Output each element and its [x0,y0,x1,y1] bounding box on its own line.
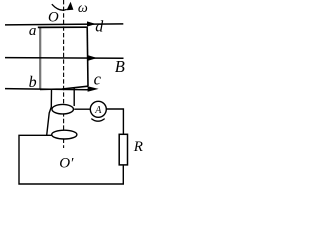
svg-text:ω: ω [78,1,88,16]
coil right edge dc [86,27,89,86]
field line 1 arrowhead [87,21,96,26]
wire ammeter to resistor top corner [106,109,123,135]
wire resistor bottom / bottom wire / left wire to ring 2 [19,135,123,184]
rotation arrow arc [52,4,67,10]
arc below ammeter [91,119,104,122]
field line 1 (top) [5,24,123,25]
field line 3 arrowhead [88,86,99,92]
field line 2 (middle) [5,57,124,60]
rotation axis OO' (dashed) [63,0,65,148]
resistor R box [119,134,127,165]
field line 2 arrowhead [88,55,97,61]
lead wire right (coil c to ring 1) [73,87,75,106]
brush wire ring1 to ammeter [74,108,90,110]
svg-text:b: b [29,74,37,91]
svg-text:d: d [95,19,104,36]
svg-text:B: B [115,57,125,76]
slip ring 2 [52,130,77,139]
field line 3 (bottom) [5,89,88,90]
coil top edge ad [38,26,88,28]
svg-text:c: c [94,70,102,89]
lead wire left (coil b through ring 1 to ring 2) [47,89,52,135]
coil left edge ab (gray) [39,27,41,89]
svg-text:R: R [133,139,143,155]
svg-text:a: a [29,23,37,39]
rotation arrowhead [67,2,74,11]
ammeter circle [90,101,106,117]
coil bottom edge bc [40,86,88,89]
svg-text:O′: O′ [59,155,74,171]
svg-text:O: O [48,10,59,26]
slip ring 1 [52,104,73,114]
svg-text:A: A [94,105,102,116]
